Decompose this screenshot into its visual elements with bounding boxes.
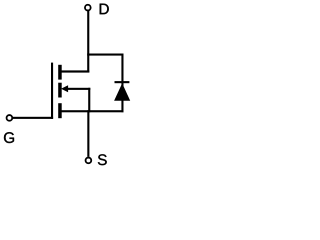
diode D1 cathode bar: [115, 81, 130, 83]
mosfet channel bar 3 (source): [58, 103, 62, 118]
wire gate lead horizontal: [13, 117, 53, 119]
transistor Q1 (N-channel MOSFET with body diode): [0, 0, 133, 176]
wire diode branch vertical: [121, 54, 123, 113]
pin D label: [100, 4, 109, 15]
mosfet channel bar 1 (drain): [58, 65, 62, 80]
wire body lead horizontal: [67, 88, 90, 90]
mosfet channel bar 2 (body): [58, 83, 62, 98]
pin S label: [98, 154, 107, 165]
mosfet body arrow: [61, 85, 68, 92]
wire drain-diode branch horizontal: [87, 54, 123, 56]
diode D1 anode triangle: [114, 83, 130, 101]
wire source vertical to S terminal: [87, 110, 89, 157]
pin G terminal circle: [7, 115, 13, 121]
wire drain lead to channel bar: [61, 70, 89, 72]
wire drain vertical: [87, 11, 89, 73]
wire source horizontal: [61, 110, 123, 112]
mosfet gate plate: [51, 63, 53, 119]
wire body lead drop vertical: [88, 88, 90, 113]
pin G label: [4, 132, 14, 143]
pin S terminal circle: [86, 158, 92, 164]
pin D terminal circle: [85, 5, 91, 11]
